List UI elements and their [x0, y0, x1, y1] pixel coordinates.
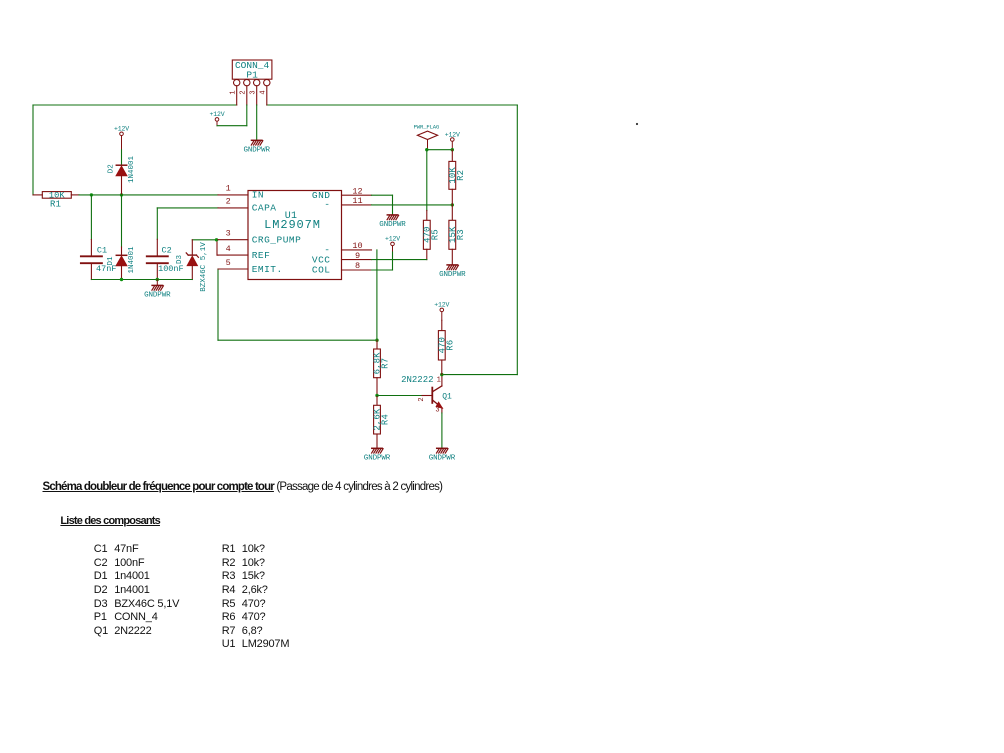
transistor Q1 2N2222	[401, 375, 452, 415]
wire bottom ground bus	[91, 279, 192, 281]
wire U1 pin5 EMIT down and right	[218, 269, 377, 340]
wire emitter to ground	[441, 413, 443, 448]
wire right-edge vertical	[516, 105, 518, 375]
svg-text:2N2222: 2N2222	[401, 375, 433, 385]
svg-text:GNDPWR: GNDPWR	[429, 455, 456, 463]
svg-text:9: 9	[355, 251, 360, 261]
svg-text:+12V: +12V	[209, 111, 224, 118]
svg-text:+12V: +12V	[445, 131, 460, 138]
svg-text:C1: C1	[97, 245, 107, 255]
wire +12V to U1 pin8 COL	[372, 252, 393, 270]
junction R7/R4/base	[375, 394, 378, 397]
junction EMIT/pin10/R7	[375, 339, 378, 342]
power flag PWR_FLAG	[414, 123, 440, 149]
svg-text:1N4001: 1N4001	[128, 246, 136, 274]
junction at D1/D2 branch	[120, 193, 123, 196]
ground GNDPWR below P1	[243, 140, 270, 154]
svg-text:4: 4	[260, 90, 268, 94]
svg-text:P1: P1	[246, 69, 258, 80]
junction D1 bottom	[120, 278, 123, 281]
resistor R4 2,6K	[373, 396, 391, 449]
resistor R3 15K	[448, 205, 466, 265]
svg-text:R3: R3	[456, 229, 466, 240]
svg-text:EMIT.: EMIT.	[252, 264, 283, 275]
svg-text:+12V: +12V	[385, 236, 400, 243]
resistor R5 470	[422, 220, 440, 259]
svg-text:R2: R2	[456, 170, 466, 181]
wire +12V to D2	[121, 150, 123, 165]
svg-text:1: 1	[437, 377, 441, 385]
wire U1 pin4 REF up to pin3 net	[217, 240, 218, 255]
wire top-right from P1 pin 4 to right edge	[267, 104, 518, 106]
svg-text:C2: C2	[162, 245, 172, 255]
svg-text:R5: R5	[430, 229, 440, 240]
wire junction to D1	[121, 195, 123, 247]
wire P1 pin3 down to ground	[256, 105, 258, 140]
svg-text:GNDPWR: GNDPWR	[379, 221, 406, 229]
diode D2 1N4001	[108, 156, 137, 195]
svg-text:2: 2	[226, 197, 231, 207]
svg-text:5: 5	[226, 258, 231, 268]
wire +12V to R6	[441, 320, 443, 330]
svg-text:BZX46C 5,1V: BZX46C 5,1V	[200, 242, 208, 292]
svg-text:2: 2	[240, 90, 248, 94]
svg-text:1: 1	[229, 90, 237, 94]
svg-text:IN: IN	[252, 190, 264, 201]
stray dot	[636, 123, 638, 125]
svg-text:GNDPWR: GNDPWR	[439, 271, 466, 279]
svg-text:100nF: 100nF	[158, 264, 184, 274]
svg-text:R7: R7	[381, 358, 391, 369]
svg-text:11: 11	[352, 196, 362, 206]
svg-text:3: 3	[249, 90, 257, 94]
wire U1 pin10 down	[376, 250, 378, 340]
connector P1 CONN_4	[229, 60, 272, 105]
wire PWR_FLAG junction	[427, 149, 453, 151]
svg-text:10: 10	[352, 241, 362, 251]
wire D3 to U1 pin3	[192, 240, 218, 255]
svg-text:-: -	[324, 199, 330, 210]
svg-text:12: 12	[352, 186, 362, 196]
svg-text:R1: R1	[50, 200, 61, 210]
resistor R7 6,8K	[373, 340, 391, 395]
svg-text:CRG_PUMP: CRG_PUMP	[252, 235, 302, 246]
wire U1 pin2 to C2	[157, 208, 218, 239]
svg-text:R6: R6	[445, 340, 455, 351]
resistor R1 10K	[33, 190, 79, 209]
svg-text:R4: R4	[381, 414, 391, 425]
wire base R7 to Q1	[377, 395, 430, 397]
diode D1 1N4001	[107, 246, 136, 279]
svg-text:GNDPWR: GNDPWR	[243, 147, 270, 155]
power +12V above D2	[114, 126, 129, 150]
resistor R6 470	[437, 331, 455, 375]
wire P1 pin2 to +12V	[217, 105, 247, 126]
wire R5 to U1 pin9 VCC	[372, 259, 427, 261]
wire +12V down to R5	[426, 150, 428, 221]
power +12V mid	[385, 236, 400, 252]
op-amp U1 LM2907M	[218, 184, 372, 280]
junction divider R2/R3	[451, 203, 454, 206]
ground GNDPWR below C2	[144, 280, 171, 300]
junction REF net	[215, 238, 218, 241]
power +12V near P1	[209, 111, 224, 126]
capacitor C2 100nF	[147, 239, 184, 279]
svg-text:GNDPWR: GNDPWR	[144, 292, 171, 300]
svg-text:GNDPWR: GNDPWR	[364, 455, 391, 463]
junction C2 bottom	[156, 278, 159, 281]
svg-text:4: 4	[226, 244, 231, 254]
svg-text:D3: D3	[176, 255, 184, 265]
ground GNDPWR below Q1	[429, 448, 456, 462]
svg-text:+12V: +12V	[114, 126, 129, 133]
zener diode D3 BZX46C 5,1V	[176, 242, 208, 292]
resistor R2 10K	[448, 150, 466, 205]
svg-text:LM2907M: LM2907M	[264, 218, 321, 232]
ground GNDPWR below R4	[364, 448, 391, 462]
svg-text:+12V: +12V	[434, 302, 449, 309]
svg-text:PWR_FLAG: PWR_FLAG	[414, 123, 440, 130]
svg-text:1: 1	[226, 184, 231, 194]
svg-text:Q1: Q1	[442, 392, 452, 401]
svg-text:1N4001: 1N4001	[128, 156, 136, 184]
wire U1 pin11 to divider	[372, 204, 453, 206]
ground GNDPWR pin12	[379, 215, 406, 229]
svg-text:2: 2	[418, 397, 426, 401]
wire R1 to U1 pin 1	[79, 194, 218, 196]
junction PWR_FLAG	[425, 148, 428, 151]
capacitor C1 47nF	[81, 240, 117, 280]
wire output horizontal to R6/Q1 collector	[442, 374, 518, 376]
power +12V above R6	[434, 302, 449, 321]
wire junction to C1	[90, 195, 92, 240]
junction +12V/R2	[451, 148, 454, 151]
svg-text:D1: D1	[107, 256, 115, 266]
wire U1 pin12 GND to ground	[372, 195, 393, 215]
power +12V top right	[445, 131, 460, 149]
svg-text:8: 8	[355, 261, 360, 271]
junction collector/R6/output	[440, 373, 443, 376]
ground GNDPWR below R3	[439, 265, 466, 279]
svg-text:CAPA: CAPA	[252, 203, 277, 214]
svg-text:REF: REF	[252, 250, 271, 261]
svg-text:3: 3	[435, 407, 439, 415]
wire top-left L from R1 up and across	[33, 105, 237, 195]
svg-text:D2: D2	[108, 164, 116, 173]
junction at C1 branch	[90, 193, 93, 196]
svg-text:3: 3	[226, 229, 231, 239]
svg-text:COL: COL	[312, 265, 331, 276]
